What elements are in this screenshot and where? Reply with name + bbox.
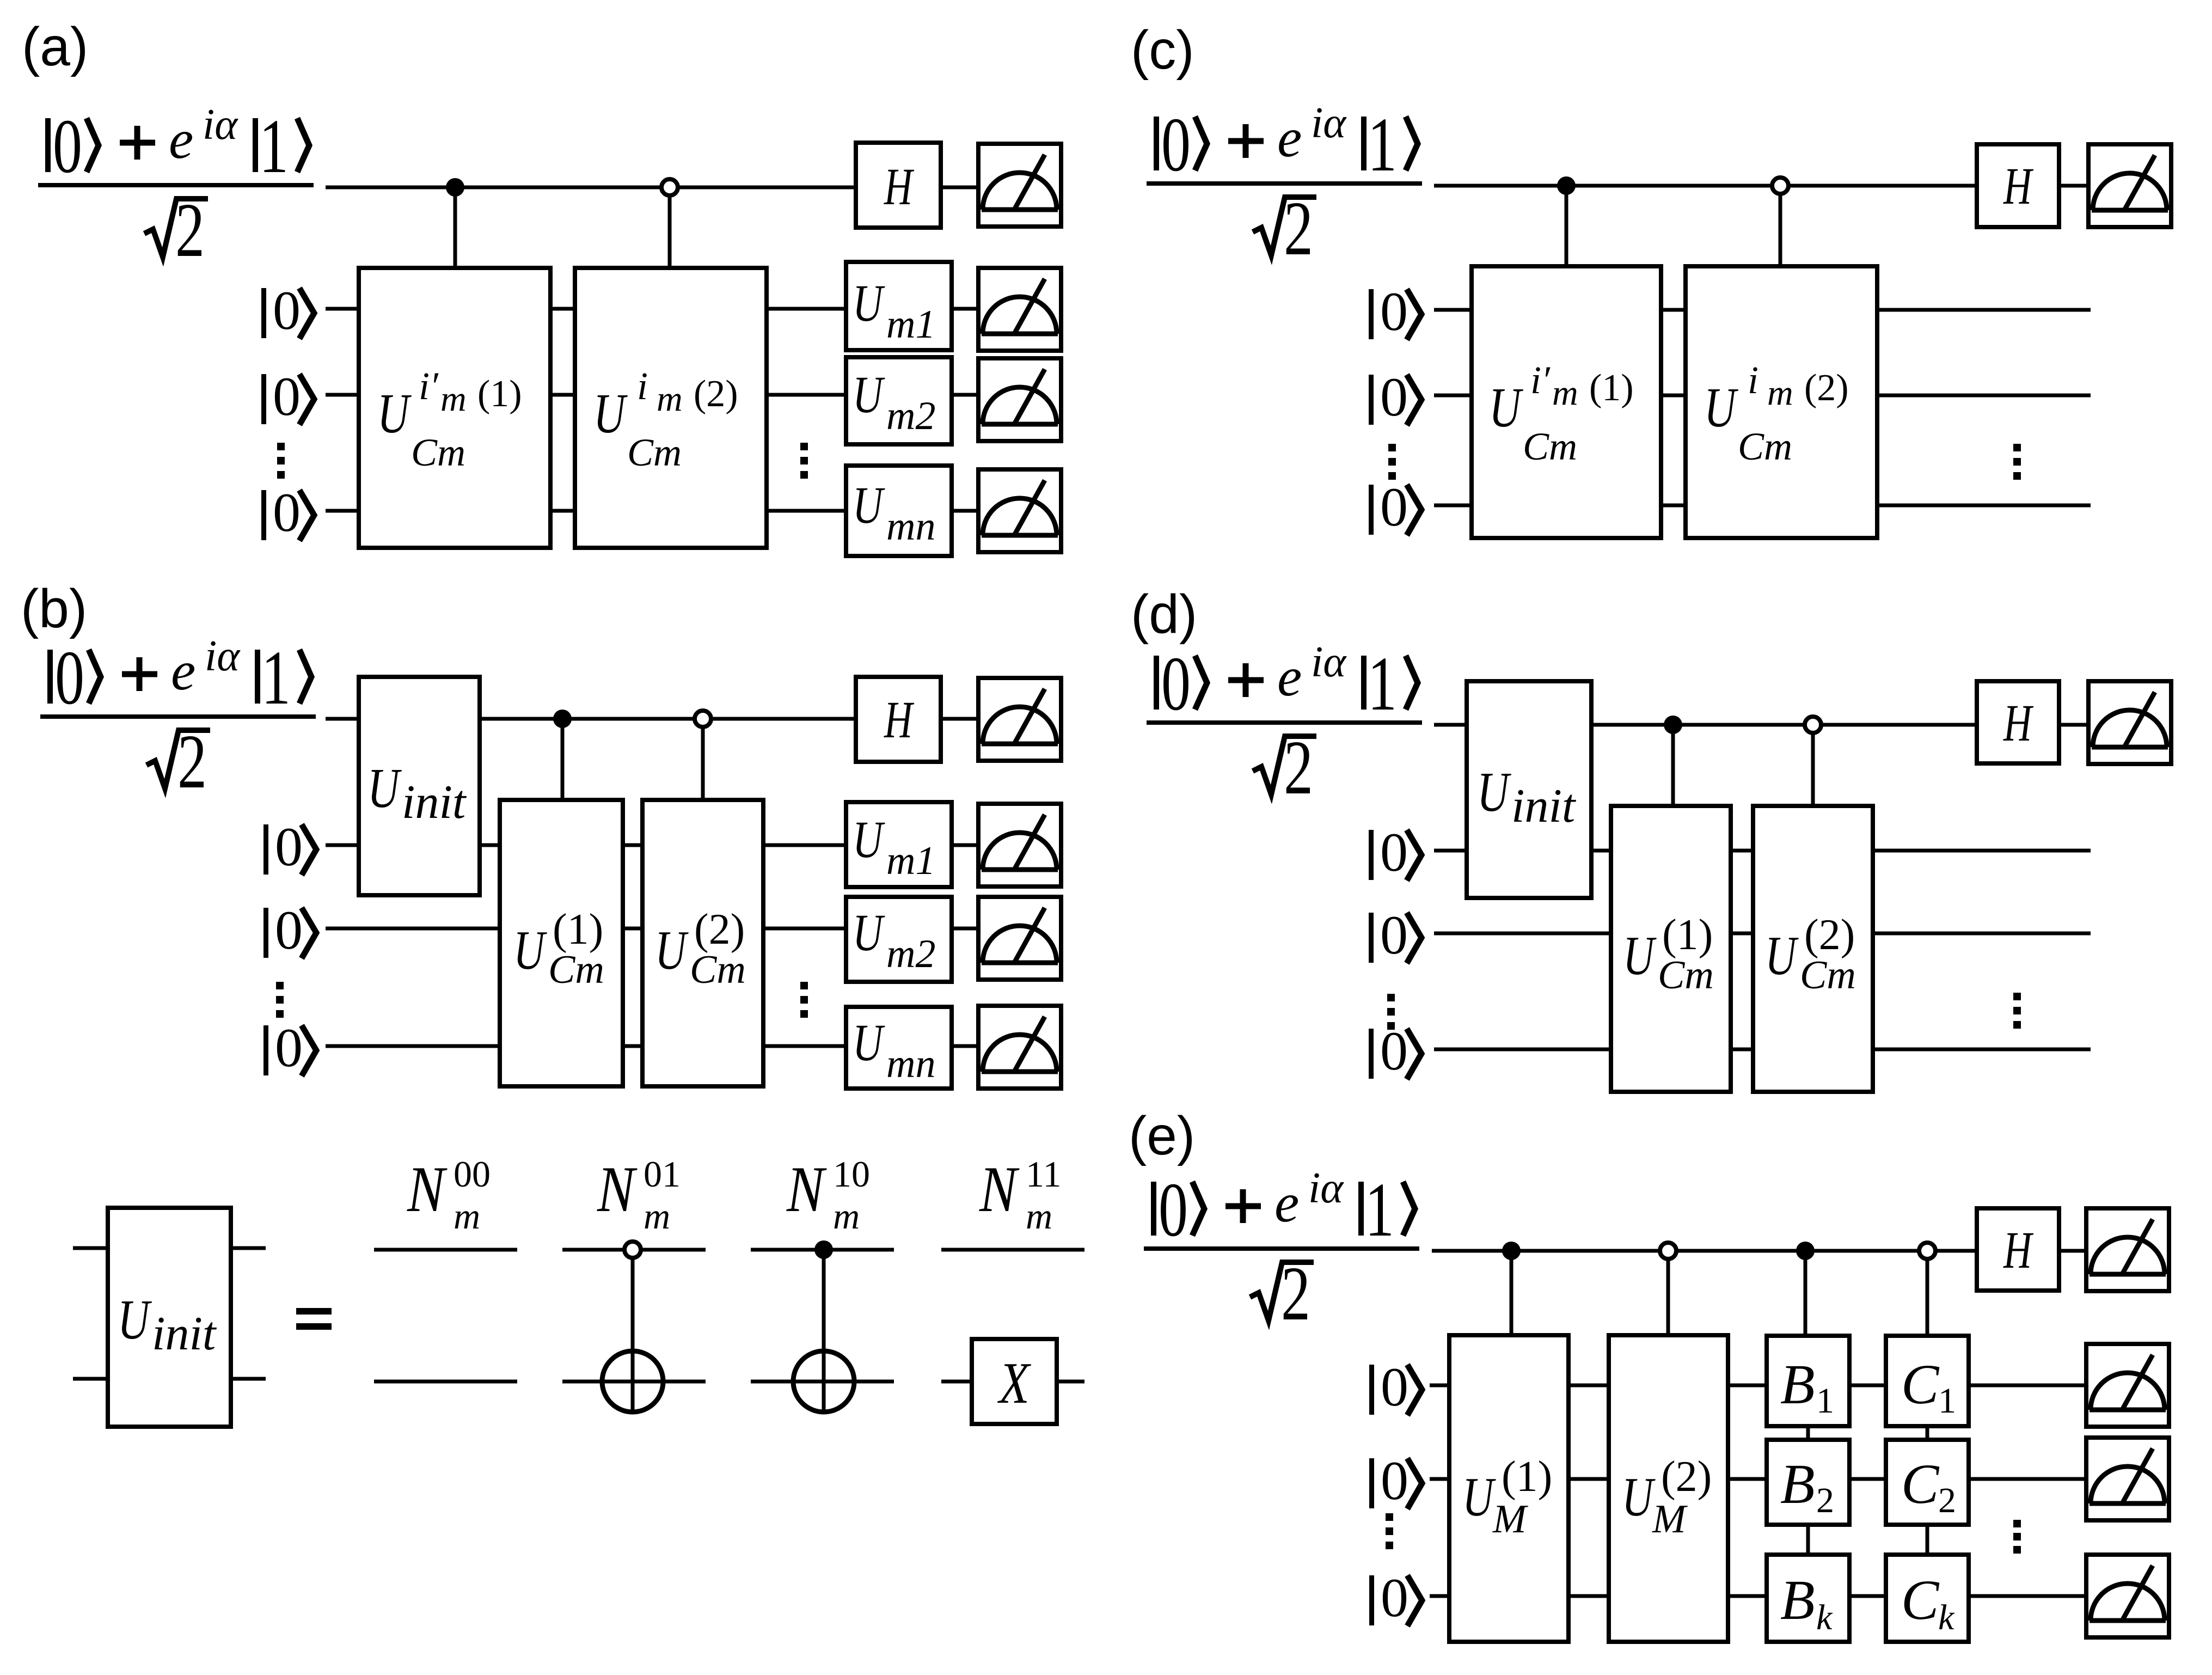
open control dot 1 panel e xyxy=(1660,1243,1676,1259)
svg-text:1: 1 xyxy=(261,635,291,721)
svg-text:0: 0 xyxy=(1380,366,1408,428)
svg-text:i: i xyxy=(637,364,648,408)
ket |0> row3 panel a xyxy=(261,482,314,543)
svg-text:U: U xyxy=(853,274,885,332)
wire top qubit panel a xyxy=(326,186,856,189)
svg-text:(e): (e) xyxy=(1129,1105,1195,1166)
svg-text:U: U xyxy=(853,811,885,869)
wire row1 segments panel c xyxy=(1434,308,2091,312)
svg-text:N: N xyxy=(786,1153,827,1226)
equals sign xyxy=(296,1311,332,1326)
svg-text:iα: iα xyxy=(1311,99,1347,147)
svg-text:U: U xyxy=(513,919,548,981)
svg-text:N: N xyxy=(597,1153,638,1226)
gate X xyxy=(972,1339,1057,1424)
svg-text:0: 0 xyxy=(1161,102,1191,188)
vertical dots left panel c xyxy=(1388,444,1396,480)
svg-text:1: 1 xyxy=(1816,1381,1834,1421)
control dot filled 1 panel e xyxy=(1502,1242,1521,1260)
gate U_m1 panel a xyxy=(846,262,952,350)
fragment N01 control line xyxy=(631,1258,635,1412)
svg-text:m: m xyxy=(1767,373,1793,413)
stub wires Uinit def top xyxy=(73,1246,266,1250)
wire row1 segments panel d xyxy=(1434,849,2091,853)
svg-text:iα: iα xyxy=(203,101,238,149)
gate H panel e xyxy=(1977,1208,2059,1291)
gate U_mn panel a xyxy=(846,466,952,556)
svg-text:2: 2 xyxy=(1281,1251,1310,1337)
gate B2 panel e xyxy=(1767,1440,1849,1525)
ket |0> row3 panel c xyxy=(1369,476,1421,538)
wire into Uinit panel d xyxy=(1434,723,1467,727)
svg-text:m2: m2 xyxy=(886,394,935,438)
meter row3 panel a xyxy=(978,469,1061,552)
svg-text:i′: i′ xyxy=(1530,358,1551,402)
svg-text:i: i xyxy=(1748,358,1758,402)
svg-text:1: 1 xyxy=(1365,1167,1394,1253)
svg-text:1: 1 xyxy=(1368,102,1397,188)
svg-text:0: 0 xyxy=(275,816,303,878)
wire H-to-meter panel a xyxy=(941,186,978,189)
meter row2 panel a xyxy=(978,358,1061,441)
svg-text:e: e xyxy=(1274,1172,1299,1234)
svg-text:U: U xyxy=(1765,925,1799,987)
vertical dots right panel c xyxy=(2013,444,2021,480)
control line 1 panel d xyxy=(1671,725,1675,806)
meter row2 panel b xyxy=(978,897,1061,980)
svg-text:M: M xyxy=(1492,1497,1529,1542)
gate C1 panel e xyxy=(1886,1336,1969,1426)
svg-text:(1): (1) xyxy=(553,906,603,953)
gate U_M^(2) box panel e xyxy=(1609,1335,1728,1642)
fragment N10 CNOT target xyxy=(793,1351,854,1412)
svg-text:2: 2 xyxy=(175,188,205,273)
gate U_M^(1) box panel e xyxy=(1449,1335,1568,1642)
svg-text:2: 2 xyxy=(1816,1481,1834,1520)
meter row1 panel b xyxy=(978,804,1061,887)
control dot filled on top wire panel a xyxy=(446,178,464,197)
gate B1 panel e xyxy=(1767,1336,1849,1426)
gate U_Cm^(i'm(1)) box panel a xyxy=(359,268,550,548)
fragment N10 filled control xyxy=(814,1240,833,1259)
vertical dots left panel b xyxy=(276,982,284,1018)
fragment N01 top wire xyxy=(562,1248,706,1252)
svg-text:(2): (2) xyxy=(694,906,745,953)
svg-text:0: 0 xyxy=(1161,641,1191,727)
svg-text:Cm: Cm xyxy=(1738,425,1792,468)
svg-text:N: N xyxy=(979,1153,1020,1226)
control line to U1 panel a xyxy=(454,187,457,268)
ket |0> row2 panel a xyxy=(261,366,314,427)
svg-text:U: U xyxy=(853,366,885,424)
gate H panel a xyxy=(856,143,941,228)
svg-text:U: U xyxy=(593,383,628,445)
svg-text:H: H xyxy=(884,158,915,216)
svg-text:11: 11 xyxy=(1026,1153,1061,1195)
control line C panel e xyxy=(1926,1251,1929,1336)
gate U_Cm^(1) box panel d xyxy=(1611,806,1731,1092)
svg-text:N: N xyxy=(407,1153,448,1226)
gate U_Cm^(im(2)) box panel c xyxy=(1686,266,1877,538)
meter row1 panel a xyxy=(978,268,1061,351)
wire row1 segments panel b xyxy=(326,843,978,847)
svg-text:Cm: Cm xyxy=(690,947,746,992)
svg-text:0: 0 xyxy=(275,900,303,961)
control line UM2 panel e xyxy=(1666,1251,1670,1335)
wire H-to-meter panel e xyxy=(2059,1249,2085,1253)
ket |0> row2 panel c xyxy=(1369,366,1421,428)
svg-text:e: e xyxy=(171,640,195,702)
svg-text:m: m xyxy=(1552,373,1578,413)
svg-text:Cm: Cm xyxy=(1658,953,1714,998)
svg-text:0: 0 xyxy=(273,280,301,341)
svg-text:(b): (b) xyxy=(21,578,87,639)
svg-text:U: U xyxy=(118,1289,152,1352)
svg-text:U: U xyxy=(1623,925,1657,987)
input state label panel d xyxy=(1147,638,1422,811)
ket |0> row2 panel e xyxy=(1369,1450,1422,1512)
svg-text:H: H xyxy=(2003,694,2034,752)
svg-text:Cm: Cm xyxy=(411,431,465,474)
svg-text:0: 0 xyxy=(275,1017,303,1079)
svg-text:m1: m1 xyxy=(886,302,935,347)
gate U_m2 panel b xyxy=(846,897,952,982)
fragment N10 control line xyxy=(822,1250,826,1412)
control dot filled 2 panel e xyxy=(1796,1242,1815,1260)
gate H panel d xyxy=(1977,681,2059,763)
svg-text:U: U xyxy=(1489,377,1523,439)
svg-text:Cm: Cm xyxy=(627,431,682,474)
wire H-to-meter panel c xyxy=(2059,184,2089,188)
connector B2-Bk panel e xyxy=(1806,1525,1810,1555)
svg-text:U: U xyxy=(853,904,885,962)
svg-text:(2): (2) xyxy=(1804,911,1855,959)
label N_m^01 xyxy=(597,1153,681,1237)
wire row2 segments panel a xyxy=(326,393,978,397)
svg-text:(1): (1) xyxy=(1589,367,1634,409)
vertical dots left panel a xyxy=(277,443,285,479)
meter top panel b xyxy=(978,678,1061,761)
meter top panel c xyxy=(2088,144,2171,227)
svg-text:m2: m2 xyxy=(886,932,935,976)
gate C2 panel e xyxy=(1886,1440,1969,1525)
wire top qubit panel c xyxy=(1434,184,1977,188)
control line to U2 panel a xyxy=(668,187,672,268)
svg-text:H: H xyxy=(2003,1221,2034,1279)
gate U_Cm^(i'm(1)) box panel c xyxy=(1472,266,1661,538)
gate Uinit panel d xyxy=(1467,681,1591,898)
svg-text:0: 0 xyxy=(1380,904,1408,966)
svg-text:m: m xyxy=(1026,1195,1052,1237)
svg-text:(a): (a) xyxy=(22,16,88,77)
fragment N10 bottom wire xyxy=(751,1380,894,1384)
svg-text:M: M xyxy=(1652,1497,1688,1542)
svg-text:m: m xyxy=(833,1195,860,1237)
svg-text:B: B xyxy=(1780,1453,1815,1515)
svg-text:00: 00 xyxy=(454,1153,491,1195)
control line UM1 panel e xyxy=(1510,1251,1514,1335)
label N_m^10 xyxy=(786,1153,870,1237)
fragment N01 bottom wire xyxy=(562,1380,706,1384)
svg-text:init: init xyxy=(1511,780,1577,833)
vertical dots left panel d xyxy=(1387,994,1395,1030)
svg-text:U: U xyxy=(1477,761,1511,824)
vertical dots left panel e xyxy=(1386,1513,1393,1549)
control line 1 panel b xyxy=(561,719,565,800)
fragment N01 CNOT target xyxy=(602,1351,663,1412)
svg-text:B: B xyxy=(1780,1569,1815,1631)
svg-text:mn: mn xyxy=(886,504,935,549)
svg-text:2: 2 xyxy=(1284,725,1313,811)
fragment N00 bottom wire xyxy=(374,1380,517,1384)
wire row3 segments panel e xyxy=(1430,1594,2085,1598)
connector B1-B2 panel e xyxy=(1806,1426,1810,1440)
ket |0> row3 panel e xyxy=(1369,1567,1422,1629)
open control dot panel c xyxy=(1772,178,1788,194)
svg-text:10: 10 xyxy=(833,1153,870,1195)
meter top qubit panel a xyxy=(978,144,1061,227)
svg-text:(1): (1) xyxy=(1502,1453,1552,1501)
gate U_m2 panel a xyxy=(846,357,952,444)
svg-text:2: 2 xyxy=(177,719,207,805)
gate U_Cm^(2) box panel b xyxy=(642,800,763,1086)
stub wires Uinit def bottom xyxy=(73,1377,266,1381)
svg-text:X: X xyxy=(997,1350,1031,1416)
gate Bk panel e xyxy=(1767,1555,1849,1642)
vertical dots mid panel a xyxy=(800,443,808,479)
svg-text:init: init xyxy=(152,1307,217,1360)
svg-text:U: U xyxy=(853,1014,885,1072)
svg-text:0: 0 xyxy=(1159,1167,1188,1253)
svg-text:m: m xyxy=(657,379,683,419)
svg-text:Cm: Cm xyxy=(548,947,604,992)
svg-text:k: k xyxy=(1816,1598,1833,1637)
wire row2 segments panel c xyxy=(1434,394,2091,398)
svg-text:(2): (2) xyxy=(1661,1453,1712,1501)
svg-text:1: 1 xyxy=(259,104,289,189)
svg-text:(c): (c) xyxy=(1131,20,1194,81)
wire into Uinit panel b xyxy=(326,717,359,721)
fragment N11 bottom wire left stub xyxy=(941,1380,972,1384)
svg-text:U: U xyxy=(1622,1466,1656,1528)
svg-text:U: U xyxy=(367,757,402,820)
vertical dots right panel d xyxy=(2013,993,2021,1029)
fragment N11 top wire xyxy=(941,1248,1084,1252)
vertical dots mid panel b xyxy=(800,982,808,1018)
control line B panel e xyxy=(1804,1251,1807,1336)
ket |0> row1 panel b xyxy=(264,816,316,878)
ket |0> row3 panel b xyxy=(264,1017,316,1079)
meter row2 panel e xyxy=(2086,1438,2169,1520)
svg-text:init: init xyxy=(402,776,467,829)
ket |0> row3 panel d xyxy=(1369,1020,1421,1082)
svg-text:Cm: Cm xyxy=(1523,425,1577,468)
input state label (|0>+e^ia|1>)/sqrt2 panel a xyxy=(38,101,314,273)
control line 2 panel c xyxy=(1779,186,1782,266)
ket |0> row1 panel d xyxy=(1369,822,1421,883)
control dot filled panel c xyxy=(1557,176,1576,195)
svg-text:0: 0 xyxy=(1381,1450,1408,1512)
wire row3 segments panel c xyxy=(1434,504,2091,508)
svg-text:m: m xyxy=(644,1195,670,1237)
svg-text:m: m xyxy=(440,379,467,419)
svg-text:2: 2 xyxy=(1938,1481,1956,1520)
svg-text:(2): (2) xyxy=(694,373,738,415)
label N_m^00 xyxy=(407,1153,491,1237)
fragment N01 open control xyxy=(624,1242,641,1258)
meter row1 panel e xyxy=(2086,1344,2169,1427)
fragment N00 top wire xyxy=(374,1248,517,1252)
svg-text:0: 0 xyxy=(1380,281,1408,343)
svg-text:0: 0 xyxy=(1380,476,1408,538)
gate U_Cm^(1) box panel b xyxy=(500,800,623,1086)
svg-text:U: U xyxy=(853,476,885,534)
svg-text:U: U xyxy=(655,919,689,981)
wire row3 segments panel b xyxy=(326,1044,978,1048)
vertical dots right panel e xyxy=(2013,1520,2021,1554)
svg-text:i′: i′ xyxy=(419,364,439,408)
ket |0> row1 panel e xyxy=(1369,1356,1422,1418)
gate U_Cm^(im(2)) box panel a xyxy=(575,268,767,548)
open control dot panel b xyxy=(695,711,711,727)
svg-text:H: H xyxy=(884,691,915,749)
svg-text:m1: m1 xyxy=(886,839,935,883)
wire row3 segments panel a xyxy=(326,509,978,513)
gate U_m1 panel b xyxy=(846,802,952,887)
svg-text:C: C xyxy=(1901,1353,1940,1416)
svg-text:1: 1 xyxy=(1368,641,1397,727)
wire H-to-meter panel b xyxy=(941,717,978,721)
ket |0> row1 panel a xyxy=(261,280,314,341)
fragment N11 bottom wire right stub xyxy=(1057,1380,1084,1384)
svg-text:k: k xyxy=(1938,1598,1955,1637)
ket |0> row2 panel d xyxy=(1369,904,1421,966)
open control dot panel a xyxy=(661,179,678,195)
gate H panel b xyxy=(856,677,941,762)
svg-text:C: C xyxy=(1901,1453,1940,1515)
svg-text:B: B xyxy=(1780,1353,1815,1416)
svg-text:0: 0 xyxy=(1380,822,1408,883)
svg-text:(1): (1) xyxy=(1662,911,1713,959)
svg-text:m: m xyxy=(454,1195,480,1237)
control dot filled panel d xyxy=(1664,716,1682,734)
svg-text:U: U xyxy=(1704,377,1738,439)
gate U_Cm^(2) box panel d xyxy=(1753,806,1873,1092)
svg-text:U: U xyxy=(1462,1466,1497,1528)
meter top panel d xyxy=(2088,681,2171,764)
svg-text:Cm: Cm xyxy=(1800,953,1856,998)
open control dot 2 panel e xyxy=(1919,1243,1935,1259)
svg-text:iα: iα xyxy=(205,632,241,680)
svg-text:C: C xyxy=(1901,1569,1940,1631)
fragment N10 top wire xyxy=(751,1248,894,1252)
wire top qubit panel b xyxy=(480,717,856,721)
input state label panel c xyxy=(1147,99,1422,272)
svg-text:0: 0 xyxy=(1381,1567,1408,1629)
svg-text:H: H xyxy=(2003,157,2034,215)
svg-text:0: 0 xyxy=(1380,1020,1408,1082)
Uinit definition box xyxy=(108,1208,231,1427)
wire row1 segments panel e xyxy=(1430,1384,2085,1387)
svg-text:0: 0 xyxy=(1381,1356,1408,1418)
svg-text:(1): (1) xyxy=(477,373,522,415)
gate Uinit panel b xyxy=(359,677,480,895)
wire row3 segments panel d xyxy=(1434,1048,2091,1052)
gate Ck panel e xyxy=(1886,1555,1969,1642)
meter top panel e xyxy=(2086,1208,2169,1291)
gate H panel c xyxy=(1977,144,2059,227)
gate U_mn panel b xyxy=(846,1007,952,1089)
input state label panel b xyxy=(40,632,316,805)
meter row3 panel e xyxy=(2086,1555,2169,1637)
connector C2-Ck panel e xyxy=(1926,1525,1929,1555)
svg-text:iα: iα xyxy=(1311,638,1347,686)
wire row2 segments panel e xyxy=(1430,1477,2085,1481)
meter row3 panel b xyxy=(978,1006,1061,1089)
svg-text:0: 0 xyxy=(55,635,84,721)
wire H-to-meter panel d xyxy=(2059,723,2089,727)
wire top qubit panel d xyxy=(1591,723,1977,727)
svg-text:0: 0 xyxy=(53,104,82,189)
svg-text:mn: mn xyxy=(886,1042,935,1086)
svg-text:e: e xyxy=(1277,107,1302,169)
control line 1 panel c xyxy=(1565,186,1568,266)
control line 2 panel b xyxy=(701,719,705,800)
svg-text:01: 01 xyxy=(644,1153,681,1195)
svg-text:(d): (d) xyxy=(1131,584,1197,645)
wire row2 segments panel b xyxy=(326,927,978,931)
control dot filled panel b xyxy=(553,710,572,728)
svg-text:1: 1 xyxy=(1938,1381,1956,1421)
ket |0> row2 panel b xyxy=(264,900,316,961)
ket |0> row1 panel c xyxy=(1369,281,1421,343)
open control dot panel d xyxy=(1805,717,1821,733)
input state label panel e xyxy=(1144,1164,1419,1337)
label N_m^11 xyxy=(979,1153,1061,1237)
svg-text:e: e xyxy=(169,109,193,170)
wire row1 segments panel a xyxy=(326,307,978,311)
wire row2 segments panel d xyxy=(1434,932,2091,936)
svg-text:(2): (2) xyxy=(1804,367,1849,409)
connector C1-C2 panel e xyxy=(1926,1426,1929,1440)
control line 2 panel d xyxy=(1811,725,1815,806)
svg-text:iα: iα xyxy=(1308,1164,1344,1212)
svg-text:2: 2 xyxy=(1284,186,1313,272)
svg-text:e: e xyxy=(1277,646,1302,708)
svg-text:0: 0 xyxy=(273,482,301,543)
svg-text:U: U xyxy=(377,383,412,445)
svg-text:0: 0 xyxy=(273,366,301,427)
wire top qubit panel e xyxy=(1432,1249,1977,1253)
